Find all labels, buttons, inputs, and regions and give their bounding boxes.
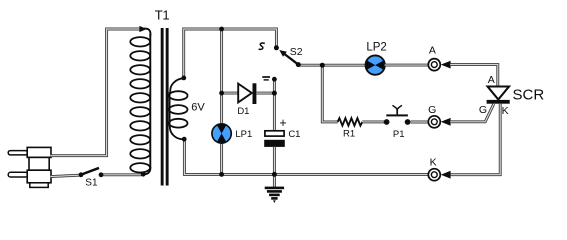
switch S1: [82, 168, 100, 175]
transformer T1 core: [161, 28, 169, 186]
wire D1 cathode: [256, 92, 273, 95]
svg-text:D1: D1: [237, 106, 249, 117]
mains plug: [8, 147, 51, 187]
wire plug bottom to S1: [51, 175, 80, 176]
node secondary bottom end: [182, 137, 187, 142]
wire secondary top to S2 top contact: [184, 29, 277, 77]
wire secondary bottom rail to terminal K: [184, 141, 428, 175]
node DC stub end: [272, 77, 277, 82]
switch S2 spring mark: [259, 43, 265, 49]
wire SCR gate: [450, 104, 494, 122]
arrow into terminal A: [441, 61, 451, 69]
svg-text:LP1: LP1: [235, 129, 252, 140]
svg-text:T1: T1: [155, 8, 170, 23]
node top rail junction: [219, 27, 224, 32]
svg-text:C1: C1: [288, 129, 300, 140]
terminal G: [428, 116, 440, 128]
wire ground stub: [273, 174, 276, 187]
svg-text:G: G: [428, 104, 436, 116]
node D1 anode junction: [219, 91, 224, 96]
node S1 left contact: [79, 172, 84, 177]
wire SCR cathode to terminal K: [450, 104, 500, 175]
arrow into terminal K: [441, 171, 451, 179]
svg-text:6V: 6V: [191, 102, 205, 114]
arrow into terminal G: [441, 118, 451, 126]
svg-text:A: A: [488, 74, 495, 86]
node S1 right contact: [99, 172, 104, 177]
svg-text:S2: S2: [290, 46, 303, 58]
node secondary top end: [181, 76, 186, 81]
svg-text:K: K: [430, 157, 437, 169]
wire LP2 to terminal A: [385, 64, 428, 67]
capacitor C1: [264, 131, 285, 147]
node ground rail junction: [272, 172, 277, 177]
wire C1 bottom to bottom rail: [273, 147, 276, 175]
ground: [265, 187, 284, 203]
wire plug top to transformer primary top: [51, 29, 141, 156]
node primary bottom junction: [141, 172, 146, 177]
lamp LP2: [366, 56, 385, 75]
wire D1 anode: [222, 92, 238, 95]
svg-text:R1: R1: [343, 128, 355, 139]
wire LP1 bottom to bottom rail: [220, 144, 223, 175]
wire P1 to terminal G: [411, 121, 428, 124]
svg-text:P1: P1: [393, 129, 405, 140]
wire S2 to LP2: [298, 64, 365, 67]
wire gate branch down and to R1: [322, 65, 338, 122]
node S2 top contact: [274, 45, 279, 50]
node S2 lever contact: [296, 62, 301, 67]
wire DC stub up: [273, 79, 276, 92]
terminal A: [428, 59, 440, 71]
svg-text:S1: S1: [85, 178, 98, 189]
DC polarity mark: [262, 77, 270, 80]
terminal K: [428, 169, 440, 181]
wire junction to C1 top: [273, 93, 276, 130]
svg-text:K: K: [502, 105, 509, 117]
svg-text:LP2: LP2: [366, 42, 386, 54]
transformer T1 primary winding: [130, 26, 150, 174]
svg-text:+: +: [279, 116, 286, 130]
wire SCR anode: [450, 65, 498, 86]
svg-text:A: A: [429, 44, 436, 56]
switch S2: [279, 50, 298, 65]
node P1 right contact: [405, 119, 411, 125]
wire R1 to P1: [362, 120, 384, 123]
node gate branch junction: [320, 63, 325, 68]
diode D1: [238, 83, 256, 104]
lamp LP1: [212, 124, 231, 143]
wire S1 to primary bottom: [101, 173, 142, 176]
node P1 left contact: [384, 119, 390, 125]
resistor R1: [338, 118, 363, 125]
node LP1 bottom rail junction: [219, 172, 224, 177]
node D1 output junction: [272, 91, 277, 96]
svg-text:SCR: SCR: [513, 87, 545, 104]
pushbutton P1: [386, 105, 408, 116]
svg-text:G: G: [479, 104, 487, 116]
SCR: [487, 87, 510, 104]
transformer T1 secondary winding: [169, 78, 187, 139]
wire AC rail down (to D1 anode and LP1): [220, 29, 223, 123]
